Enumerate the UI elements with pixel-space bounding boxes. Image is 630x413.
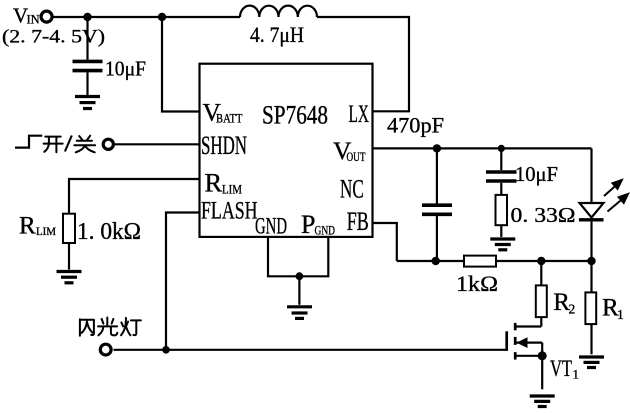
svg-text:10μF: 10μF xyxy=(515,162,558,186)
svg-text:R: R xyxy=(19,213,36,240)
svg-text:2: 2 xyxy=(569,301,576,316)
svg-text:1. 0kΩ: 1. 0kΩ xyxy=(77,219,141,245)
svg-text:NC: NC xyxy=(340,175,364,204)
svg-text:0. 33Ω: 0. 33Ω xyxy=(511,203,576,227)
svg-text:GND: GND xyxy=(315,224,336,238)
svg-text:1: 1 xyxy=(573,367,580,382)
svg-text:1kΩ: 1kΩ xyxy=(456,271,498,296)
svg-text:10μF: 10μF xyxy=(105,56,146,80)
svg-text:FLASH: FLASH xyxy=(201,196,258,225)
svg-text:BATT: BATT xyxy=(216,112,243,126)
svg-text:LIM: LIM xyxy=(222,183,242,197)
svg-text:R: R xyxy=(205,167,223,197)
svg-text:4. 7μH: 4. 7μH xyxy=(250,22,304,47)
svg-text:LX: LX xyxy=(349,101,370,128)
svg-text:470pF: 470pF xyxy=(387,113,444,138)
svg-text:OUT: OUT xyxy=(347,150,366,164)
svg-text:FB: FB xyxy=(347,207,369,236)
svg-text:LIM: LIM xyxy=(36,226,56,238)
svg-text:IN: IN xyxy=(27,13,40,27)
svg-text:(2. 7-4. 5V): (2. 7-4. 5V) xyxy=(2,27,105,48)
svg-text:P: P xyxy=(301,210,315,239)
svg-text:GND: GND xyxy=(255,214,287,239)
svg-text:SP7648: SP7648 xyxy=(262,101,328,130)
svg-text:VT: VT xyxy=(550,356,572,382)
svg-text:SHDN: SHDN xyxy=(201,131,247,160)
svg-text:1: 1 xyxy=(617,307,624,322)
